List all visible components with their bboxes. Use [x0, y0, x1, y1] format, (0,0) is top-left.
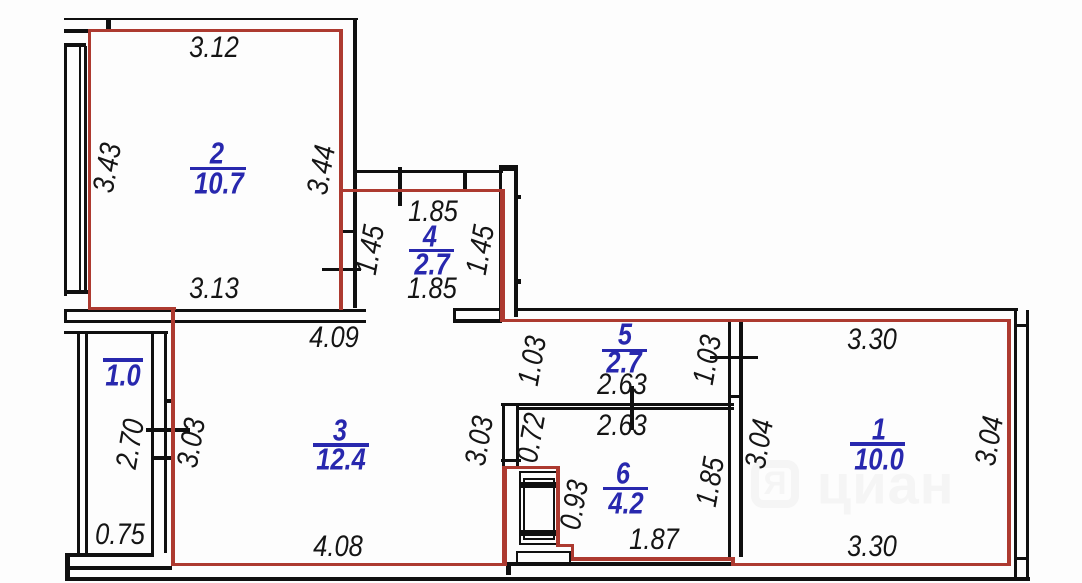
- corridor5 underline: [602, 349, 647, 352]
- dim 2.70: [112, 417, 150, 471]
- room2 window pane line b: [84, 46, 87, 291]
- red step at room6/room1: [731, 557, 735, 567]
- loggia4 right wall outer line: [514, 165, 518, 317]
- balcony left wall line b: [85, 334, 88, 553]
- corridor5 area: [606, 347, 641, 378]
- wall segment right of door bottom line: [453, 319, 501, 323]
- dim 3.30 bottom: [847, 532, 897, 562]
- room1 underline: [850, 442, 905, 446]
- red room1 right: [1007, 319, 1011, 566]
- dim 1.45 right: [462, 223, 500, 277]
- red bottom under room3: [171, 563, 505, 567]
- balcony area: [105, 360, 140, 391]
- room2 window outer line: [64, 43, 67, 296]
- room2 number: [210, 138, 224, 169]
- dim 0.72: [513, 411, 551, 465]
- room2 right wall: [353, 18, 357, 308]
- dim 1.03 right: [689, 333, 727, 387]
- loggia4 top thin line: [355, 170, 503, 173]
- dim 1.85 top: [408, 197, 458, 227]
- dim 3.04 room1 left: [741, 417, 779, 471]
- dim 4.09: [309, 323, 359, 353]
- room2 window top cap1: [64, 29, 88, 33]
- room6 underline: [603, 487, 648, 490]
- red shaft right: [556, 466, 560, 548]
- balcony dim tick upper: [146, 428, 190, 432]
- building corner vertical bottom-left: [65, 553, 70, 581]
- dim 3.30 top: [847, 325, 897, 355]
- corridor room1 wall line a: [728, 322, 732, 557]
- dim 2.63 upper: [597, 370, 647, 400]
- red shaft down to floor: [571, 544, 575, 561]
- room1 area: [854, 444, 903, 475]
- right wall top connector: [1017, 324, 1026, 327]
- room6 number: [616, 458, 630, 489]
- room6 left wall line b: [516, 403, 520, 467]
- loggia4 right wall notch b: [517, 279, 521, 284]
- balcony bottom wall: [65, 553, 154, 557]
- room6 top wall line a: [501, 403, 734, 407]
- red shaft bottom jog: [556, 544, 574, 548]
- room6 top wall line b: [518, 407, 734, 410]
- bathtub bottom band: [521, 530, 556, 537]
- top wall of right section: [517, 308, 1018, 312]
- loggia4 right wall top cap: [499, 165, 519, 171]
- room2 window bottom cap: [64, 290, 88, 294]
- room3 underline: [313, 443, 369, 447]
- dim 1.87: [629, 525, 679, 555]
- red shaft top: [502, 466, 560, 470]
- loggia4 left wall tick small: [342, 230, 356, 233]
- balcony overline: [103, 358, 143, 362]
- watermark cian logo: [751, 442, 955, 517]
- dim 0.75: [95, 520, 145, 550]
- room2 window pane line a: [79, 46, 81, 291]
- balcony right wall line b: [164, 334, 168, 553]
- red room3 left: [171, 307, 175, 567]
- loggia4 underline: [409, 249, 454, 253]
- room6 left wall dim tick: [501, 459, 521, 462]
- dim 2.63 lower: [597, 411, 647, 441]
- right wall outer line: [1026, 310, 1030, 578]
- red room2 right: [339, 29, 343, 310]
- red loggia4 top: [339, 189, 503, 193]
- right wall bottom connector: [1017, 557, 1026, 561]
- room2 window top cap2: [64, 43, 86, 47]
- red corridor room1 top: [500, 319, 1009, 323]
- bathtub inner rect: [523, 478, 555, 540]
- red room2 left: [88, 29, 92, 310]
- balcony window tick: [164, 399, 175, 403]
- red room2 bottom: [88, 307, 176, 311]
- bottom wall tick at room3/room6: [506, 562, 511, 575]
- dim 3.44: [303, 143, 341, 197]
- loggia4 area: [414, 249, 449, 280]
- bottom wall bottom face: [70, 577, 1030, 581]
- dim 0.93: [556, 478, 594, 532]
- dim 3.13: [189, 274, 239, 304]
- red shaft left vertical: [502, 466, 507, 566]
- room3 number: [333, 415, 347, 446]
- wall room2/room3 bottom line: [64, 320, 366, 324]
- wall room2/room3 top line: [64, 309, 366, 313]
- wall segment right of door top line: [453, 308, 501, 311]
- loggia4 right wall notch a: [517, 195, 521, 199]
- dim 1.03 left: [514, 334, 552, 388]
- room6 area: [608, 488, 643, 519]
- right wall inner line: [1014, 308, 1018, 578]
- corridor5 number: [618, 319, 632, 350]
- bathtub outer rect: [519, 471, 559, 545]
- pedestal under bathtub: [516, 551, 571, 565]
- bathtub top band: [521, 482, 556, 488]
- red bottom under room1: [731, 563, 1009, 567]
- dim 3.12: [189, 33, 239, 63]
- dim 3.43: [89, 141, 127, 195]
- room3 area: [316, 444, 365, 475]
- loggia4 left wall tick long: [322, 268, 361, 272]
- balcony left wall line a: [77, 334, 80, 553]
- bottom wall top face left: [70, 566, 172, 570]
- dim 4.08: [313, 532, 363, 562]
- corridor room1 wall connector: [728, 395, 744, 398]
- wall room2/room3 left end: [64, 309, 67, 324]
- dim 1.45 left: [352, 223, 390, 277]
- balcony dim tick lower: [151, 456, 171, 460]
- balcony top wall: [64, 331, 168, 335]
- dim 3.04 room1 right: [971, 414, 1009, 468]
- bathroom bottom face line: [507, 562, 733, 566]
- red room2 top: [88, 29, 343, 33]
- red loggia4 right: [500, 189, 505, 323]
- corridor room1 dim tick horizontal: [710, 356, 758, 359]
- loggia4 mullion tick a: [398, 167, 402, 206]
- room2 area: [194, 168, 243, 199]
- red bottom under room6: [572, 557, 734, 561]
- top wall tick: [106, 18, 111, 30]
- loggia4 right wall inner line: [499, 165, 503, 323]
- corridor room1 wall line b: [739, 322, 743, 557]
- loggia4 number: [423, 221, 437, 252]
- dim 3.03 right: [461, 414, 499, 468]
- dim 3.03 left: [173, 416, 211, 470]
- wall segment left cap: [453, 308, 456, 323]
- dim 1.85 bottom: [407, 274, 457, 304]
- corridor dim tick vertical: [630, 386, 634, 430]
- room6 left wall line a: [502, 403, 506, 467]
- room1 number: [872, 414, 886, 445]
- loggia4 mullion tick b: [463, 170, 467, 189]
- top exterior thin line: [64, 18, 358, 20]
- balcony right wall line a: [151, 334, 154, 553]
- room2 underline: [190, 167, 246, 170]
- dim 1.85 room6 right: [692, 455, 730, 509]
